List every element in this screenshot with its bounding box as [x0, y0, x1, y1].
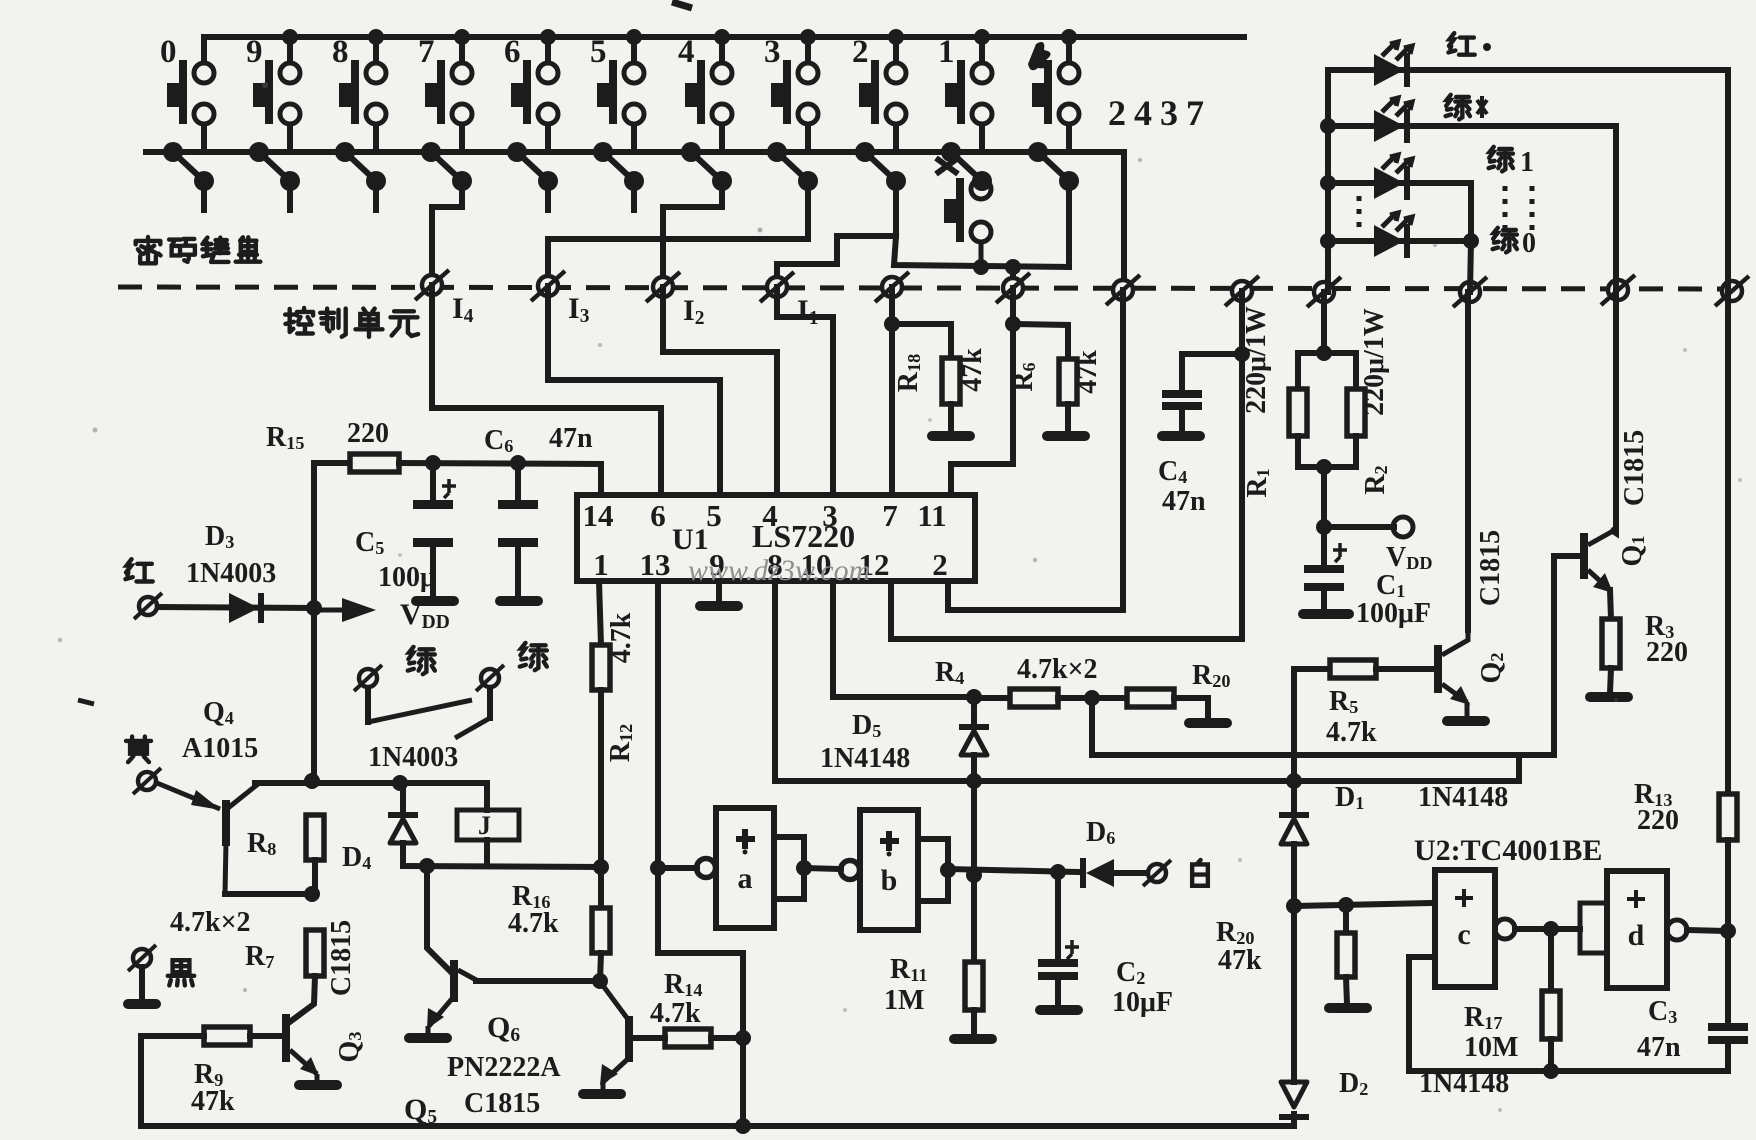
svg-text:1: 1 [1520, 147, 1534, 178]
junction connector stub [1005, 259, 1021, 275]
svg-text:1: 1 [938, 34, 955, 70]
terminal red input [134, 593, 162, 619]
resistor R6 [1059, 359, 1077, 404]
pushbutton key 3 [771, 37, 818, 152]
svg-text:4.7k: 4.7k [508, 908, 559, 939]
junction D5 bottom [966, 773, 982, 789]
switch arm key 8 [335, 142, 386, 191]
svg-text:220: 220 [1637, 805, 1679, 836]
wire to gate c input [1294, 903, 1433, 906]
mark x near extra key [936, 158, 958, 174]
svg-text:A1015: A1015 [182, 733, 258, 764]
wire feedback bottom loop [1409, 957, 1728, 1071]
svg-text:1M: 1M [884, 985, 924, 1016]
wire green01 to Q2 collector [1465, 292, 1471, 630]
resistor R20 47k (input pulldown) [1343, 905, 1349, 933]
svg-text:100μF: 100μF [1356, 598, 1431, 629]
junction gate a input [650, 860, 666, 876]
ground black input [123, 999, 161, 1009]
capacitor C5 [430, 463, 436, 500]
wire to R4 [974, 695, 1010, 701]
wire Q4 collector loop [225, 891, 312, 897]
label kongzhi danyuan (control unit) [285, 308, 313, 334]
wire R5 left down [1291, 669, 1297, 781]
resistor R20 [1127, 689, 1174, 707]
wire down to gate rail [971, 781, 977, 875]
svg-text:2: 2 [852, 34, 869, 70]
wire to C4 [1182, 354, 1242, 390]
svg-text:220: 220 [1646, 637, 1688, 668]
resistor R5 [1294, 666, 1330, 672]
wire stub to connector 1013 [1010, 267, 1016, 288]
svg-text:220: 220 [347, 418, 389, 449]
wire green1 join green0 [1468, 183, 1474, 241]
ground pin 9 [695, 601, 743, 611]
diode D4 [400, 783, 406, 812]
switch arm key 9 [249, 142, 300, 191]
gate c [1435, 870, 1515, 987]
boundary dashed line [118, 287, 1750, 289]
wire D2 to bottom rail [1291, 1114, 1297, 1126]
switch arm key 5 [593, 142, 644, 191]
svg-text:6: 6 [504, 34, 521, 70]
resistor R1 [1289, 389, 1307, 436]
svg-text:0: 0 [160, 34, 177, 70]
wire LED common bus [1325, 70, 1331, 292]
wire R9 to Q3 base [250, 1033, 282, 1039]
svg-text:4.7k: 4.7k [650, 998, 701, 1029]
wire pin13 to bottom rail [658, 581, 743, 1126]
svg-text:www.dz3w.com: www.dz3w.com [688, 554, 870, 587]
wire R7 to Q3 collector [291, 976, 315, 1021]
svg-text:220μ/1W: 220μ/1W [1359, 308, 1390, 416]
ground Q2 emitter [1442, 716, 1490, 726]
wire Q5 collector to node [476, 978, 600, 984]
resistor R5 body [1330, 660, 1376, 678]
wire key stub [287, 181, 293, 210]
label green# LED [1446, 95, 1470, 120]
wire pin 10 to R4 [833, 581, 974, 697]
resistor R13 on right rail [1725, 291, 1731, 794]
capacitor C6 [515, 463, 521, 500]
junction D1 gate c input [1286, 898, 1302, 914]
switch arm key 1 [941, 142, 992, 191]
connector top bus on boundary [1225, 276, 1259, 306]
wire c out to d in [1515, 926, 1580, 932]
svg-text:10M: 10M [1464, 1032, 1518, 1063]
junction relay to Q5 [419, 858, 435, 874]
pushbutton key 9 [253, 37, 300, 152]
junction sub key bottom [973, 259, 989, 275]
ground Q6 emitter [578, 1089, 626, 1099]
switch arm key 7 [421, 142, 472, 191]
svg-text:2437: 2437 [1108, 93, 1212, 133]
svg-text:C1815: C1815 [1475, 530, 1506, 606]
resistor R8 [306, 815, 324, 860]
pushbutton key sub (below key 1) [944, 178, 991, 267]
svg-text:220μ/1W: 220μ/1W [1241, 306, 1272, 414]
resistor R15 [350, 454, 399, 472]
svg-text:4: 4 [678, 34, 695, 70]
junction C5 top [425, 455, 441, 471]
wire red LED row [1328, 67, 1728, 73]
svg-text:47k: 47k [1072, 350, 1103, 394]
transistor Q1 [1580, 531, 1613, 593]
terminal white output [1143, 860, 1171, 886]
wire red LED down to boundary [1725, 70, 1731, 291]
junction R5 D1 rail [1286, 773, 1302, 789]
capacitor C1 [1321, 527, 1327, 565]
connector key2 net on boundary [875, 272, 909, 302]
ground R20 [1184, 718, 1232, 728]
junction R1R2 top [1316, 345, 1332, 361]
wire VDD rail [399, 463, 601, 464]
connector I4 on boundary [415, 270, 449, 300]
connector key1/extra net on boundary [996, 273, 1030, 303]
wire key2 branch horizontal [894, 236, 1069, 267]
pushbutton key 8 [339, 37, 386, 152]
diode D3 [229, 593, 264, 623]
wire to R6 [1013, 324, 1068, 359]
svg-text:47k: 47k [1218, 945, 1262, 976]
svg-text:b: b [881, 864, 898, 897]
dotted separators LED block [1357, 196, 1362, 232]
transistor Q2 [1434, 628, 1470, 717]
svg-text:U2:TC4001BE: U2:TC4001BE [1414, 834, 1602, 867]
svg-text:47n: 47n [549, 423, 593, 454]
ground C4 [1157, 431, 1205, 441]
LED red [1374, 42, 1412, 87]
capacitor C3 [1725, 931, 1731, 1023]
svg-text:9: 9 [246, 34, 263, 70]
svg-text:a: a [738, 862, 753, 895]
junction VDD node [306, 600, 322, 616]
IC U1 LS7220 [577, 495, 975, 581]
wire R4 to R20 [1058, 695, 1127, 701]
resistor R14 [665, 1029, 711, 1047]
wire to gate a input [658, 865, 697, 871]
svg-text:47k: 47k [957, 348, 988, 392]
svg-text:1N4003: 1N4003 [186, 558, 276, 589]
junction R17 bottom [1543, 1063, 1559, 1079]
wire R1R2 bottom bar [1298, 464, 1356, 470]
label mima jianpan (password keypad) [136, 237, 161, 263]
junction key extra top bus [1061, 29, 1077, 45]
pushbutton key 4 [685, 37, 732, 152]
svg-text:4.7k×2: 4.7k×2 [1017, 654, 1098, 685]
terminal black input [128, 945, 156, 971]
label green0 LED [1493, 228, 1517, 253]
switch arm key 4 [681, 142, 732, 191]
wire I2 to key4 [663, 181, 722, 287]
wire connector to pin 7 [889, 287, 895, 495]
wire gate a out to b in [804, 868, 841, 869]
junction rail R8 [304, 773, 320, 789]
wire bottom rail [141, 1123, 1294, 1129]
wire I2 to pin 4 [663, 287, 777, 495]
ground R3 [1585, 692, 1633, 702]
wire keypad common bus [146, 149, 1124, 155]
junction R11 tap [966, 867, 982, 883]
pushbutton key 0 [167, 37, 214, 152]
svg-text:14: 14 [583, 498, 614, 533]
connector green01 on boundary [1453, 277, 1487, 307]
switch arm key 6 [507, 142, 558, 191]
junction R8 R7 [304, 886, 320, 902]
svg-text:3: 3 [822, 498, 838, 533]
ground C5 [411, 596, 459, 606]
resistor R18 [942, 358, 960, 404]
junction key 1 top bus [974, 29, 990, 45]
gate d [1580, 871, 1687, 988]
gate b [841, 810, 957, 930]
wire R15 left vertical to Q4 rail [311, 463, 317, 781]
ground Q5 emitter [404, 1033, 452, 1043]
svg-text:4.7k: 4.7k [1326, 717, 1377, 748]
mark blob near key extra riser [1028, 42, 1051, 70]
wire into pin 14 [598, 464, 604, 495]
LED green# [1374, 98, 1412, 143]
wire R5 to Q2 base [1376, 666, 1434, 672]
svg-text:13: 13 [640, 547, 671, 582]
LED green1 [1374, 155, 1412, 200]
wire R9 left down to bottom rail [141, 1036, 204, 1126]
junction LED bus green0 [1320, 233, 1336, 249]
pushbutton key 5 [597, 37, 644, 152]
switch arm key 0 [163, 142, 214, 191]
svg-text:C1815: C1815 [464, 1088, 540, 1119]
wire pin 8 long rail [775, 581, 1519, 781]
ground Q3 emitter [294, 1080, 342, 1090]
capacitor C4 [1162, 390, 1202, 410]
ground R18 [927, 431, 975, 441]
connector I1 on boundary [760, 272, 794, 302]
junction R14 right [735, 1030, 751, 1046]
junction green0 row [1463, 233, 1479, 249]
svg-text:6: 6 [650, 498, 666, 533]
svg-text:c: c [1457, 918, 1470, 951]
connector I3 on boundary [531, 271, 565, 301]
wire green# to Q1 collector [1613, 290, 1616, 533]
junction R4 R20 [1084, 690, 1100, 706]
wire key2 to I1 [777, 181, 896, 284]
resistor R16 [592, 908, 610, 953]
gate a [697, 808, 813, 928]
transistor Q3 [282, 1014, 319, 1080]
pushbutton key 1 [945, 37, 992, 152]
junction key 3 top bus [800, 29, 816, 45]
svg-text:1N4148: 1N4148 [1418, 782, 1508, 813]
wire common bus down to boundary [1121, 152, 1127, 292]
junction C2 tap [1050, 864, 1066, 880]
svg-text:J: J [478, 811, 491, 840]
connector LED bus on boundary [1307, 277, 1341, 307]
junction key 8 top bus [368, 29, 384, 45]
label red LED [1448, 33, 1474, 55]
svg-text:d: d [1628, 919, 1645, 952]
wire I1 to pin 3 [777, 287, 833, 495]
junction key 5 top bus [626, 29, 642, 45]
resistor R9 [204, 1027, 250, 1045]
wire LED bus to R1R2 [1321, 292, 1327, 353]
terminal yellow input [133, 768, 161, 794]
svg-text:5: 5 [706, 498, 722, 533]
ground R6 [1042, 431, 1090, 441]
wire key stub [631, 181, 637, 210]
transistor Q4 [157, 783, 258, 894]
resistor R17 [1548, 929, 1554, 991]
connector common on boundary [1106, 275, 1140, 305]
junction C4 tap [1234, 346, 1250, 362]
resistor R12 on pin1 line [599, 581, 601, 645]
wire R1R2 top bar [1298, 350, 1356, 356]
label green A [408, 647, 435, 674]
svg-text:10μF: 10μF [1112, 987, 1173, 1018]
diode D6 [1080, 858, 1114, 888]
connector red LED on boundary [1715, 276, 1749, 306]
svg-text:3: 3 [764, 34, 781, 70]
junction key 2 top bus [888, 29, 904, 45]
wire to R11 [971, 875, 977, 962]
junction D5 R4 [966, 689, 982, 705]
wire green# down to boundary [1613, 126, 1619, 290]
wire R8 to node [312, 860, 318, 894]
diode D1 [1291, 781, 1297, 812]
label yellow input [126, 737, 151, 763]
junction key 9 top bus [282, 29, 298, 45]
junction R1R2 bottom [1316, 459, 1332, 475]
wire Q1 emitter to R3 [1610, 590, 1611, 619]
svg-text:C1815: C1815 [1619, 430, 1650, 506]
junction key 7 top bus [454, 29, 470, 45]
svg-text:11: 11 [917, 498, 946, 533]
resistor R2 [1347, 389, 1365, 436]
switch arm key 3 [767, 142, 818, 191]
resistor R4 [1010, 689, 1058, 707]
svg-text:C1815: C1815 [326, 920, 357, 996]
svg-text:4: 4 [762, 498, 778, 533]
wire to VDD terminal [1324, 524, 1394, 530]
junction C6 top [510, 455, 526, 471]
svg-text:47k: 47k [191, 1086, 235, 1117]
junction LED bus green# [1320, 118, 1336, 134]
switch arm key 2 [855, 142, 906, 191]
wire I3 to pin 5 [548, 286, 720, 495]
resistor R13 [1719, 794, 1737, 840]
svg-text:7: 7 [882, 498, 898, 533]
junction d out rail [1720, 923, 1736, 939]
label white output [1192, 860, 1208, 886]
pushbutton key extra [1032, 37, 1079, 152]
wire key extra column down [1066, 181, 1072, 267]
relay J [484, 783, 490, 810]
wire D4 relay bottom to R12 line [403, 866, 601, 867]
LED green0 [1374, 213, 1412, 258]
diode D2 [1279, 1082, 1309, 1120]
wire R15 left [314, 460, 350, 466]
wire R20 to ground [1174, 698, 1208, 719]
svg-text:1N4148: 1N4148 [820, 743, 910, 774]
wire key stub [545, 181, 551, 210]
wire gate b out rail [948, 869, 1080, 872]
connector I2 on boundary [646, 272, 680, 302]
svg-text:1N4003: 1N4003 [368, 742, 458, 773]
junction R20b tap [1338, 897, 1354, 913]
wire top keypad bus [204, 34, 1244, 40]
switch arm key extra [1028, 142, 1079, 191]
junction rail D4 [392, 775, 408, 791]
resistor R7 [306, 930, 324, 976]
ground R20b [1324, 1003, 1372, 1013]
label black input [168, 960, 194, 985]
terminal VDD right [1393, 517, 1413, 537]
wire connector to pin 11 [951, 288, 1013, 495]
junction R6 [1005, 316, 1021, 332]
wire relay node to Q5 base [427, 866, 451, 972]
resistor R3 [1602, 619, 1620, 668]
junction VDD tap [1316, 519, 1332, 535]
transistor Q6 [600, 983, 633, 1089]
svg-text:47n: 47n [1162, 486, 1206, 517]
wire I4 to pin 6 [432, 285, 661, 495]
junction R18 [884, 316, 900, 332]
capacitor C2 [1055, 872, 1061, 959]
svg-text:2: 2 [932, 547, 948, 582]
switch contact 1N4003 [365, 688, 371, 722]
junction R17 tap [1543, 921, 1559, 937]
wire key stub [201, 181, 207, 210]
junction bottom rail [735, 1118, 751, 1134]
pushbutton key 2 [859, 37, 906, 152]
svg-text:PN2222A: PN2222A [447, 1052, 561, 1083]
wire green0 to boundary [1470, 241, 1471, 292]
label red input [125, 559, 152, 581]
svg-text:47n: 47n [1637, 1032, 1681, 1063]
junction Q5 collector / Q6 [592, 973, 608, 989]
arrow to VDD [314, 608, 344, 613]
wire D1 node down to D2 [1291, 906, 1297, 1082]
wire green# LED row [1328, 123, 1616, 129]
wire green1 LED row [1328, 180, 1471, 186]
connector green# on boundary [1601, 275, 1635, 305]
terminal green B [476, 665, 504, 691]
ground C6 [495, 596, 543, 606]
svg-text:7: 7 [418, 34, 435, 70]
junction key 4 top bus [714, 29, 730, 45]
pushbutton key 6 [511, 37, 558, 152]
wire Q1 base rail joint [1516, 757, 1522, 781]
wire R14 to Q6 base [633, 1035, 665, 1041]
svg-text:1: 1 [593, 547, 609, 582]
label green1 LED [1489, 147, 1513, 172]
svg-text:U1: U1 [672, 523, 709, 556]
svg-text:4.7k×2: 4.7k×2 [170, 907, 251, 938]
svg-text:8: 8 [332, 34, 349, 70]
wire relay rail [255, 780, 487, 786]
junction key 6 top bus [540, 29, 556, 45]
ground C1 [1298, 609, 1354, 619]
wire black to ground [139, 967, 145, 1000]
terminal green A [354, 665, 382, 691]
wire to R18 [892, 324, 951, 358]
mark top edge [672, 2, 692, 8]
ground R11 [949, 1034, 997, 1044]
svg-text:1N4148: 1N4148 [1419, 1068, 1509, 1099]
junction LED bus green1 [1320, 175, 1336, 191]
wire common to pin 2 [948, 290, 1123, 610]
label green B [520, 643, 547, 670]
ground C2 [1035, 1005, 1083, 1015]
